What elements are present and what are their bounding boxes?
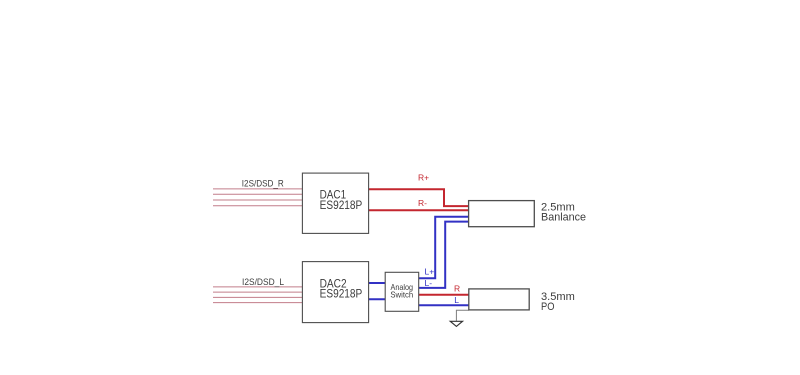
- svg-text:L: L: [454, 295, 459, 305]
- svg-text:L+: L+: [425, 267, 435, 277]
- svg-text:I2S/DSD_R: I2S/DSD_R: [242, 178, 284, 188]
- svg-text:R+: R+: [418, 172, 429, 182]
- svg-text:ES9218P: ES9218P: [320, 286, 363, 300]
- svg-text:R-: R-: [418, 198, 427, 208]
- svg-text:ES9218P: ES9218P: [320, 198, 363, 212]
- svg-text:R: R: [454, 283, 460, 293]
- svg-text:Banlance: Banlance: [541, 211, 586, 223]
- svg-text:PO: PO: [541, 301, 555, 313]
- svg-text:I2S/DSD_L: I2S/DSD_L: [242, 277, 284, 287]
- svg-text:Switch: Switch: [390, 290, 413, 300]
- svg-text:L-: L-: [425, 278, 433, 288]
